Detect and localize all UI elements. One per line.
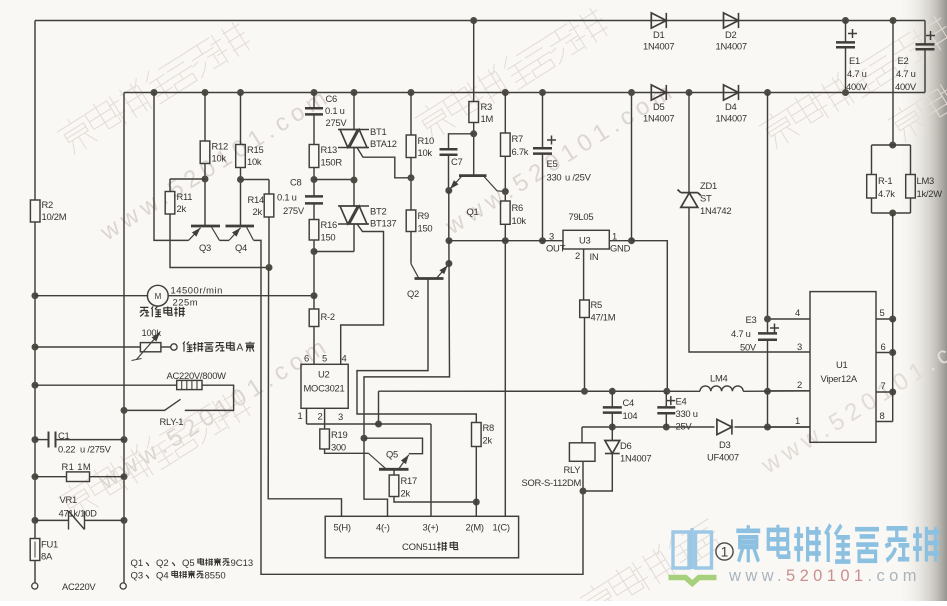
wire bus left drop to U2 bus [378,391,380,424]
svg-text:UF4007: UF4007 [707,452,739,463]
svg-text:8550: 8550 [205,571,226,582]
junction rail2-BT1 [351,89,358,96]
wire U1 pin7 stub [876,391,893,393]
svg-text:BT1: BT1 [370,126,386,137]
svg-text:u /275V: u /275V [80,444,112,455]
wire R19 bottom to Q5 [325,449,369,453]
junction Q1 emitter-C7 [445,187,452,194]
polarity + E2 [926,31,935,40]
polarity + E5 [547,136,556,145]
triac BT1 BTA12 [338,130,369,148]
capacitor E5 330u/25V [533,148,552,153]
junction left-motor [32,292,39,299]
wire R10 top lead [410,93,412,136]
svg-text:7: 7 [881,380,886,391]
junction rail2drop-RLY1 [121,407,128,414]
junction pin6 [889,349,896,356]
svg-text:Viper12A: Viper12A [821,373,858,384]
wire bus to CON511 pin3+ [430,424,432,516]
transistor Q3 collector leg [212,227,220,240]
transistor Q3 emitter arrow [189,228,201,241]
svg-text:R10: R10 [418,135,434,146]
svg-text:10k: 10k [212,153,227,164]
wire top AC rail [35,20,925,22]
transistor Q1 emitter arrow [450,177,462,190]
resistor R8 2k [472,423,482,447]
wire lower bus [582,426,810,428]
wire Q1 emitter column [448,191,450,241]
capacitor C6 0.1u 275V [305,108,323,114]
junction rail2-C6 [311,89,318,96]
resistor R1 1M [67,472,90,482]
svg-text:6: 6 [881,341,886,352]
svg-text:0.1 u: 0.1 u [277,192,297,203]
junction U2bus [375,421,382,428]
wire R-1 LM3 bottom bar [872,212,911,214]
wire U3 pin2 to R5 [583,249,585,300]
svg-text:10k: 10k [418,147,433,158]
wire C4 top lead [611,391,613,407]
transistor Q5 collector leg [369,453,386,468]
capacitor E3 4.7u/50V [758,333,777,339]
junction E4-lower [663,424,670,431]
svg-text:4.7 u: 4.7 u [731,328,751,339]
svg-text:4: 4 [342,353,347,364]
junction R10-R9-gate [408,174,415,181]
polarity + E1 [848,29,857,38]
svg-text:3: 3 [549,231,554,242]
wire R7 top lead [504,93,506,134]
watermark hanzi row [577,519,724,606]
wire U2 bottom bus [307,423,432,425]
wire node to CON511 pin5H [268,268,341,517]
svg-text:2k: 2k [401,488,411,499]
junction rail2-GNDcol [628,89,635,96]
svg-text:Q5: Q5 [182,558,195,569]
wire motor right lead [167,295,314,297]
svg-text:Q5: Q5 [386,449,398,460]
diode D2 1N4007 [724,13,739,28]
junction toprail-R1col [890,17,897,24]
svg-text:3: 3 [338,411,343,422]
svg-text:E4: E4 [676,396,687,407]
wire E5 bottom lead [542,154,544,241]
svg-text:MOC3021: MOC3021 [304,383,345,394]
resistor R6 [501,201,511,224]
motor M 搅拌电机 [147,285,168,306]
watermark hanzi row [54,19,253,157]
wire U1 pin5 stub [876,318,893,320]
junction right-R1 [121,473,128,480]
wire to U1 pin5 [892,213,894,319]
wire U1 pin2 stub [768,390,811,392]
watermark hanzi row [55,385,254,523]
svg-text:R3: R3 [481,101,493,112]
svg-text:AC220V/800W: AC220V/800W [167,370,227,381]
svg-text:Q2: Q2 [156,558,169,569]
junction R12-R11 [202,176,209,183]
junction pin5 [889,316,896,323]
svg-text:1N4742: 1N4742 [700,205,731,216]
wire BT2 bottom lead [353,224,355,252]
svg-text:R2: R2 [42,199,54,210]
wire R15 to Q4 base [240,168,242,227]
wire Q2 base to R8 top [357,279,476,423]
svg-text:4(-): 4(-) [376,522,390,533]
resistor R2 [30,200,40,222]
wire R1 right lead [90,476,125,478]
wire R9 bottom lead [410,232,412,264]
wire R13 to C8 [313,168,315,197]
terminal A circle [171,344,177,350]
wire R-2 top lead [313,296,315,309]
junction pin7 [889,389,896,396]
svg-text:R19: R19 [331,429,347,440]
svg-text:D3: D3 [719,439,731,450]
resistor R5 [580,300,590,318]
wire E1 bottom lead [845,47,847,92]
wire R12 top lead [204,93,206,142]
svg-text:1N4007: 1N4007 [716,41,747,52]
wire node to BT1-BT2 junction [314,179,354,181]
svg-text:9C13: 9C13 [231,558,254,569]
svg-text:1(C): 1(C) [493,522,510,533]
wire U1 pin4 stub [768,318,811,320]
wire U3 GND stub [609,240,631,242]
wire rail2 to U3 GND [631,93,633,241]
svg-text:50V: 50V [740,342,757,353]
svg-text:R1 1M: R1 1M [62,461,92,472]
svg-text:BT2: BT2 [370,206,386,217]
heater bar [181,380,183,389]
junction rail2-pin4col [764,89,771,96]
svg-text:C1: C1 [58,430,70,441]
logo hanzi 家电维修资料网 [736,525,939,563]
svg-text:D6: D6 [620,440,632,451]
junction Q1 collector-R7R6 [502,188,509,195]
wire C7 bottom lead [448,155,450,191]
junction Q5 emitter loop [361,435,368,442]
svg-text:U1: U1 [836,359,848,370]
junction rail2-R7 [502,89,509,96]
capacitor C4 104 [603,407,622,412]
svg-text:R8: R8 [483,422,495,433]
svg-text:4.7 u: 4.7 u [847,68,867,79]
junction rail2-ZD1 [686,89,693,96]
svg-text:E5: E5 [547,158,558,169]
svg-text:47/1M: 47/1M [591,312,616,323]
svg-text:150: 150 [418,223,433,234]
svg-text:Q4: Q4 [235,242,247,253]
relay RLY SOR-S-112DM coil [569,443,595,462]
logo green swoosh [669,578,717,584]
junction left-R1 [32,473,39,480]
svg-text:10/2M: 10/2M [42,211,67,222]
junction E4-bus [663,388,670,395]
svg-text:U2: U2 [318,369,330,380]
junction left-pot [32,344,39,351]
transistor Q3 base bar [191,225,220,228]
wire R14 bottom lead [268,217,270,268]
capacitor C1 0.22u/275V [49,432,56,448]
wire VR1 left lead [35,519,69,521]
wire RLY top lead [581,427,583,443]
junction pin4-E3 [764,316,771,323]
wire R11 top lead [169,179,171,192]
triac BT2 BT137 [338,206,369,224]
wire D6 top lead [611,427,613,441]
junction right-C1 [121,436,128,443]
svg-text:0.22: 0.22 [58,444,75,455]
wire R12 to Q3 base [204,164,206,227]
pot arrow tail tick [132,359,142,361]
wire R17 bottom to pin2M [394,497,476,503]
wire R8 bottom to CON pin2M [475,447,477,517]
wire E3 bottom lead [767,340,769,392]
resistor R7 [501,133,511,156]
wire output bus right part [743,390,810,392]
wire D6 to RLY node [583,453,612,491]
resistor R15 [236,145,246,168]
svg-text:4: 4 [795,307,800,318]
svg-text:R9: R9 [418,210,430,221]
wire VR1 right lead [85,519,125,521]
svg-text:1N4007: 1N4007 [643,41,674,52]
svg-text:2(M): 2(M) [466,522,484,533]
wire E5 top lead [542,93,544,149]
resistor R11 2k [165,192,175,215]
svg-text:BT137: BT137 [370,218,396,229]
svg-text:8: 8 [880,410,885,421]
svg-text:150: 150 [321,232,336,243]
capacitor E2 4.7u/400V [916,44,935,49]
svg-text:RLY: RLY [564,464,582,475]
junction toprail-E1 [842,17,849,24]
svg-text:R7: R7 [512,133,524,144]
svg-text:Q3: Q3 [199,242,211,253]
junction R16-BT2 [311,248,318,255]
diode D5 1N4007 [651,85,666,100]
fuse FU1 [30,539,40,561]
logo book icon [673,528,712,569]
svg-text:R5: R5 [591,299,603,310]
connector CON511 box [325,516,518,558]
svg-text:3: 3 [797,341,802,352]
wire R3 to Q1 base [473,123,475,177]
wire LM3 top lead [910,145,912,175]
wire R-1 LM3 top bar [872,144,911,146]
svg-text:C6: C6 [326,93,338,104]
wire output bus left part [379,390,701,392]
IC U1 Viper12A [810,292,876,443]
junction motor-R2col [311,292,318,299]
svg-text:400V: 400V [895,81,917,92]
svg-text:CON511: CON511 [402,542,437,553]
svg-text:LM4: LM4 [710,373,728,384]
wire R14 top [241,179,270,181]
label 搅拌电机 [140,306,185,316]
transistor Q2 emitter arrow [437,265,448,277]
polarity + E4 [666,396,675,405]
svg-text:1: 1 [795,415,800,426]
svg-text:225m: 225m [173,297,199,308]
svg-text:R6: R6 [512,202,524,213]
svg-text:www.520101.com: www.520101.com [728,567,921,585]
wire Q3-Q4 bridge [220,239,230,241]
svg-text:8A: 8A [41,551,53,562]
wire U1 right common vertical [892,319,894,422]
wire C1 right lead [56,439,124,441]
junction left-VR1 [32,517,39,524]
svg-text:GND: GND [610,243,631,254]
svg-text:1M: 1M [481,113,494,124]
wire toprail to R-1 node [892,21,894,146]
wire R15 top lead [240,93,242,145]
capacitor C7 [440,149,458,155]
svg-text:RLY-1: RLY-1 [160,416,184,427]
wire R-1 bottom lead [871,198,873,213]
resistor R10 [406,135,416,158]
wire R-1 top lead [871,145,873,175]
wire R3 top lead [473,21,475,102]
svg-text:A: A [237,343,244,354]
svg-text:FU1: FU1 [41,539,58,550]
wire FU1 to terminal [34,561,36,584]
svg-text:4.7k: 4.7k [878,188,895,199]
wire rail2 down to E3 [767,93,769,334]
junction C4-lower [609,424,616,431]
svg-text:R15: R15 [247,144,263,155]
svg-text:E3: E3 [746,314,757,325]
wire U1 pin8 stub [876,421,893,423]
svg-text:U3: U3 [579,235,591,246]
junction C4-bus [609,388,616,395]
wire R-2 to U2 pin6 [313,327,315,365]
svg-text:M: M [155,292,162,301]
junction R-1/LM3 bottom [889,210,896,217]
svg-text:Q1: Q1 [467,206,479,217]
svg-text:R17: R17 [401,475,417,486]
transistor Q4 base bar [226,225,255,228]
svg-text:0.1 u: 0.1 u [325,105,345,116]
svg-text:OUT: OUT [546,243,566,254]
junction BT1-BT2 node [351,177,358,184]
junction left-heater [32,382,39,389]
junction R3-C7 [470,130,477,137]
watermark hanzi row [756,13,947,151]
svg-text:ST: ST [700,193,712,204]
svg-text:1: 1 [298,410,303,421]
resistor R12 [200,141,210,164]
wire left main vertical [34,21,36,539]
wire R6 bottom to CON511 pin1C [504,224,506,516]
wire R14 top lead [268,180,270,195]
svg-text:275V: 275V [326,117,348,128]
svg-text:D1: D1 [653,29,665,40]
svg-text:R12: R12 [212,141,228,152]
svg-text:6.7k: 6.7k [512,146,529,157]
svg-text:400V: 400V [846,81,868,92]
junction rail2-R10 [408,89,415,96]
diode D1 1N4007 [651,13,666,28]
svg-text:AC220V: AC220V [62,581,96,592]
wire C8 to R16 [313,203,315,219]
wire R10 to R9 [410,158,412,211]
svg-text:1: 1 [612,231,617,242]
terminal AC220V right [120,583,126,589]
junction E5-OUT bus [539,237,546,244]
transistor Q5 emitter arrow [399,455,409,469]
diode D6 1N4007 [605,441,620,454]
inductor LM4 [700,386,743,391]
svg-text:Q4: Q4 [156,571,169,582]
svg-text:25V: 25V [676,421,693,432]
junction GND-column [628,237,635,244]
svg-text:275V: 275V [283,205,305,216]
potentiometer 100k body [140,343,161,352]
wire E3node to lower bus [767,391,769,427]
svg-text:2k: 2k [253,206,263,217]
label 连接主控板A点 [183,342,235,352]
polarity + E3 [770,324,779,333]
svg-text:6: 6 [304,353,309,364]
wire Q5 base to R17 [393,469,395,475]
wire BT1 top lead [353,93,355,130]
wire pot left lead [35,346,140,348]
svg-text:R11: R11 [177,191,193,202]
wire C4 bottom lead [611,413,613,427]
svg-text:R13: R13 [321,144,337,155]
wire C6 top lead [313,93,315,109]
wire motor left lead [35,295,148,297]
svg-text:100k: 100k [142,327,162,338]
junction R17-R8-pin2M [473,499,480,506]
logo circled 1 [716,543,733,560]
wire ZD1 top lead [688,93,690,193]
junction R15-R14 [237,176,244,183]
potentiometer wiper arrow [137,333,161,360]
wire U1 pin1 stub [768,426,811,428]
wire R11 bottom to R14 node [170,214,269,268]
resistor R3 1M [469,102,479,123]
watermark hanzi row [885,69,947,146]
transistor Q2 collector leg [411,264,419,278]
wire U2 pin1 lead [306,408,308,424]
wire OUT bus [449,240,563,242]
wire Q4 collector down to RLY coil [254,240,583,574]
IC U2 MOC3021 [301,364,348,408]
varistor VR1 [69,511,85,530]
wire BT2 bottom to R16 node [314,251,354,253]
resistor R17 2k [389,475,399,497]
junction right-VR1 [121,517,128,524]
wire E2 top lead [924,21,926,45]
svg-text:471k/10D: 471k/10D [59,508,98,519]
svg-text:5(H): 5(H) [334,522,351,533]
svg-text:IN: IN [590,251,599,262]
regulator U3 79L05 [563,230,609,249]
capacitor E1 4.7u/400V [836,42,855,47]
svg-text:330: 330 [547,172,562,183]
junction OUT bus left [446,237,453,244]
junction E3-bus [764,388,771,395]
diode D4 1N4007 [724,85,739,100]
junction lowerbus-pin1 [764,424,771,431]
svg-text:D2: D2 [725,29,737,40]
svg-text:C4: C4 [623,397,635,408]
capacitor C8 0.1u 275V [305,196,323,203]
zener ZD1 1N4742 [678,190,701,208]
